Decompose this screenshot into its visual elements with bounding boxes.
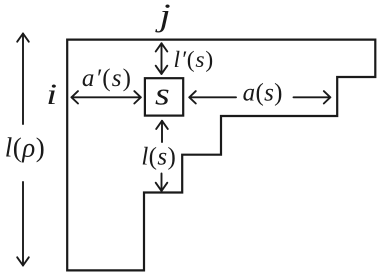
svg-text:a′(s): a′(s): [82, 65, 132, 92]
svg-text:s: s: [155, 76, 170, 112]
svg-text:i: i: [46, 77, 57, 111]
svg-text:a(s): a(s): [243, 80, 283, 107]
svg-text:l(ρ): l(ρ): [5, 133, 45, 163]
svg-text:l′(s): l′(s): [174, 47, 215, 73]
svg-text:j: j: [155, 0, 171, 33]
svg-text:l(s): l(s): [141, 144, 176, 171]
